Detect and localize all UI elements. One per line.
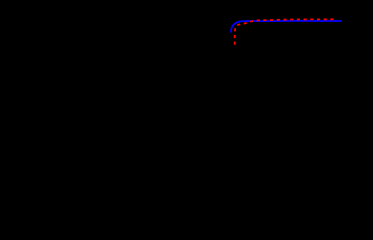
red dashed curve bbox=[235, 19, 337, 45]
blue solid curve bbox=[231, 21, 341, 32]
